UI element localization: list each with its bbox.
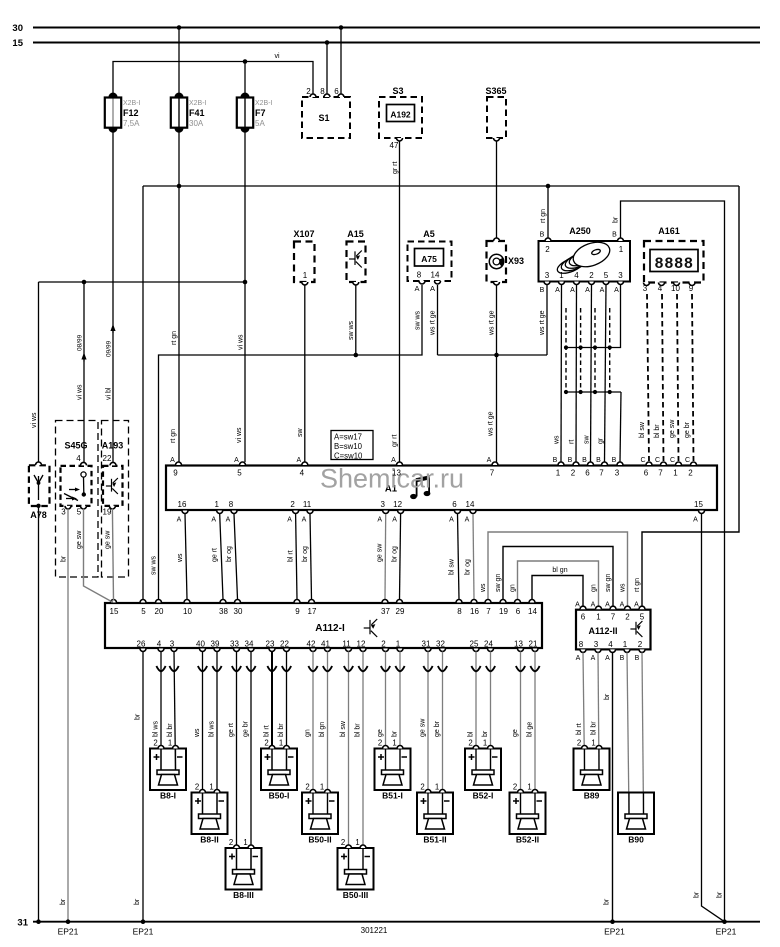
switch S365 bbox=[485, 86, 506, 141]
wire br A112-I-26 to ground EP21 bbox=[134, 652, 143, 922]
svg-text:ge sw: ge sw bbox=[420, 718, 427, 737]
enclosure dashed box S45G bbox=[56, 421, 99, 578]
svg-text:1: 1 bbox=[214, 500, 219, 509]
svg-text:S45G: S45G bbox=[64, 441, 87, 451]
svg-text:ge sw: ge sw bbox=[377, 543, 384, 562]
svg-text:B: B bbox=[553, 457, 558, 464]
svg-text:42: 42 bbox=[307, 640, 316, 649]
svg-text:1: 1 bbox=[168, 739, 172, 748]
aerial A78 bbox=[29, 462, 50, 520]
wire br A112-I-1 to B51-I 1 bbox=[392, 652, 405, 771]
svg-text:2: 2 bbox=[378, 739, 382, 748]
svg-text:A250: A250 bbox=[569, 226, 591, 236]
svg-text:6: 6 bbox=[452, 500, 457, 509]
junction F41/bus30 bbox=[177, 25, 182, 30]
svg-text:8888: 8888 bbox=[654, 255, 693, 273]
svg-text:4: 4 bbox=[157, 640, 162, 649]
svg-text:bl gn: bl gn bbox=[319, 722, 326, 737]
svg-text:16: 16 bbox=[470, 607, 479, 616]
svg-text:ge br: ge br bbox=[684, 421, 691, 438]
svg-text:15: 15 bbox=[12, 38, 23, 49]
svg-text:A: A bbox=[620, 602, 625, 609]
svg-text:sw gn: sw gn bbox=[495, 574, 502, 592]
wire gr A250 pin5 to A1 B7 bbox=[598, 285, 607, 463]
svg-text:7: 7 bbox=[599, 469, 604, 478]
wire bl sw A112-I-11 to B50-III 2 bbox=[340, 652, 353, 870]
svg-text:47: 47 bbox=[390, 141, 399, 150]
svg-text:2: 2 bbox=[381, 640, 386, 649]
svg-text:bl br: bl br bbox=[355, 723, 362, 737]
svg-text:ws: ws bbox=[194, 728, 201, 738]
wire rt gn branch down to A112-I pin5 bbox=[142, 186, 144, 599]
wire vi ws down to A78 bbox=[31, 282, 39, 464]
A112-I top pins bbox=[110, 600, 538, 617]
svg-text:S365: S365 bbox=[485, 86, 506, 96]
fuse F41 30A bbox=[171, 93, 207, 133]
svg-text:3: 3 bbox=[545, 271, 550, 280]
svg-text:ws rt ge: ws rt ge bbox=[539, 310, 546, 336]
net sw ws (A15/A5 pin8 to A112-I pin20) bbox=[151, 285, 423, 599]
wire ge br A112-I-32 to B51-II 1 bbox=[434, 652, 447, 815]
legend box A=sw17 B=sw10 C=sw10 bbox=[331, 431, 373, 461]
wire br A112-I-24 to B52-I 1 bbox=[482, 652, 495, 771]
svg-text:A: A bbox=[487, 457, 492, 464]
fuse F7 5A bbox=[237, 93, 273, 133]
svg-text:1: 1 bbox=[396, 640, 401, 649]
unit A5 with A75 (CD control) bbox=[408, 229, 452, 293]
svg-text:ws: ws bbox=[480, 583, 487, 593]
wire ge sw A1-3 to A112-I-37 bbox=[377, 514, 386, 599]
svg-text:1: 1 bbox=[303, 271, 308, 280]
svg-text:19: 19 bbox=[499, 607, 508, 616]
svg-text:1: 1 bbox=[623, 640, 628, 649]
svg-text:25: 25 bbox=[470, 640, 479, 649]
svg-text:5: 5 bbox=[604, 271, 609, 280]
svg-text:br: br bbox=[482, 730, 489, 737]
svg-text:bl sw: bl sw bbox=[639, 421, 646, 438]
svg-text:A: A bbox=[634, 602, 639, 609]
svg-text:A: A bbox=[430, 284, 435, 293]
wire vi ws S45G pin4 with 08/99 marker bbox=[77, 282, 87, 463]
svg-text:10: 10 bbox=[671, 284, 680, 293]
A1 bottom pins bbox=[177, 500, 705, 524]
svg-text:A: A bbox=[585, 287, 590, 294]
wire S365 to X93 bbox=[496, 141, 498, 238]
svg-text:br: br bbox=[135, 713, 142, 720]
svg-text:B50-III: B50-III bbox=[343, 890, 369, 900]
wire ge sw A193 pin19 to A112-I pin15 bbox=[105, 509, 114, 601]
svg-text:6: 6 bbox=[334, 87, 339, 96]
wire ws A1-16 to A112-I-10 bbox=[177, 514, 187, 599]
junction A250-br/bus31 bbox=[722, 919, 727, 924]
svg-text:1: 1 bbox=[435, 783, 439, 792]
svg-text:33: 33 bbox=[230, 640, 239, 649]
svg-text:39: 39 bbox=[211, 640, 220, 649]
svg-text:X93: X93 bbox=[508, 256, 524, 266]
svg-text:bl gn: bl gn bbox=[552, 567, 567, 574]
svg-text:B51-II: B51-II bbox=[423, 835, 446, 845]
svg-text:16: 16 bbox=[178, 500, 187, 509]
wire vi net (F12/F7 tops to S1 pin 2) bbox=[113, 53, 313, 97]
svg-text:2: 2 bbox=[625, 613, 630, 622]
antenna connector X93 bbox=[487, 238, 525, 285]
wire A78 to ground 31 bbox=[38, 506, 40, 922]
svg-text:13: 13 bbox=[514, 640, 523, 649]
svg-text:29: 29 bbox=[396, 607, 405, 616]
wire ge sw S45G pin5 to A112-I pin15 bbox=[76, 509, 113, 603]
svg-text:7: 7 bbox=[486, 607, 491, 616]
net bl gn A112-I-14 to A112-II-6 bbox=[532, 567, 583, 606]
svg-text:br: br bbox=[613, 216, 620, 223]
svg-text:br: br bbox=[604, 898, 611, 905]
wire bl rt A112-II-8 to B89 2 bbox=[576, 653, 585, 771]
switch S45G bbox=[61, 441, 92, 517]
svg-text:br: br bbox=[694, 891, 701, 898]
svg-text:ws rt ge: ws rt ge bbox=[489, 310, 496, 336]
svg-text:6: 6 bbox=[581, 613, 586, 622]
wire ge rt A112-I-33 to B8-III 2 bbox=[228, 652, 241, 870]
svg-text:B: B bbox=[582, 457, 587, 464]
svg-text:1: 1 bbox=[619, 245, 624, 254]
junction rt-gn net at A250 bbox=[546, 184, 551, 189]
svg-text:F12: F12 bbox=[123, 108, 139, 118]
wire bl ge A112-I-21 to B52-II 1 bbox=[527, 652, 540, 815]
svg-text:EP21: EP21 bbox=[133, 927, 154, 937]
svg-text:34: 34 bbox=[245, 640, 254, 649]
svg-text:X2B-I: X2B-I bbox=[189, 100, 207, 107]
svg-text:ge rt: ge rt bbox=[228, 723, 235, 737]
net ws rt ge (X93/S365 to A5 pin14, A250 pin3, A1 pin7) bbox=[430, 285, 548, 463]
wire bl gn A112-I-41 to B50-II 1 bbox=[319, 652, 332, 815]
svg-text:13: 13 bbox=[392, 469, 401, 478]
svg-text:301221: 301221 bbox=[361, 926, 388, 935]
wire rt gn A250 pin2 up to rt-gn net bbox=[540, 186, 548, 238]
screened wire bl br A161 pin4 to A1 C7 bbox=[654, 294, 664, 461]
svg-text:rt gn: rt gn bbox=[171, 331, 178, 345]
junction vi/F7 bbox=[243, 59, 248, 64]
svg-text:A: A bbox=[177, 517, 182, 524]
svg-text:22: 22 bbox=[280, 640, 289, 649]
A1 top pins bbox=[170, 457, 696, 478]
screened wire ge br A161 pin9 to A1 C2 bbox=[684, 294, 694, 461]
svg-text:09/99: 09/99 bbox=[106, 340, 113, 357]
svg-text:ws rt ge: ws rt ge bbox=[488, 411, 495, 437]
svg-text:ge sw: ge sw bbox=[76, 530, 83, 549]
svg-text:3: 3 bbox=[380, 500, 385, 509]
A112-II bottom pins bbox=[576, 640, 645, 662]
svg-text:ge sw: ge sw bbox=[105, 530, 112, 549]
svg-text:2: 2 bbox=[545, 245, 550, 254]
speaker B51-I bbox=[375, 739, 411, 801]
relay A193 bbox=[102, 441, 124, 517]
svg-text:A: A bbox=[605, 602, 610, 609]
svg-text:bl br: bl br bbox=[167, 723, 174, 737]
svg-text:B51-I: B51-I bbox=[382, 791, 403, 801]
wire S1 pin8 to bus 15 bbox=[326, 43, 328, 95]
svg-text:8: 8 bbox=[417, 271, 422, 280]
svg-text:ws: ws bbox=[620, 583, 627, 593]
bus 30 line bbox=[12, 23, 760, 34]
svg-text:3: 3 bbox=[615, 469, 620, 478]
svg-text:12: 12 bbox=[357, 640, 366, 649]
svg-text:7: 7 bbox=[658, 469, 663, 478]
svg-text:23: 23 bbox=[266, 640, 275, 649]
speaker B8-I bbox=[150, 739, 186, 801]
wire gr rt S3 pin47 to A1 pin13 bbox=[392, 141, 400, 462]
svg-text:19: 19 bbox=[103, 508, 112, 517]
wire ge A112-I-2 to B51-I 2 bbox=[377, 652, 390, 771]
svg-text:gr rt: gr rt bbox=[392, 162, 399, 175]
wire br og A1-12 to A112-I-29 bbox=[392, 514, 401, 599]
svg-text:A75: A75 bbox=[421, 254, 437, 264]
svg-text:B: B bbox=[596, 457, 601, 464]
svg-text:ws rt ge: ws rt ge bbox=[430, 310, 437, 336]
svg-text:ge: ge bbox=[377, 729, 384, 737]
svg-text:3: 3 bbox=[61, 508, 66, 517]
svg-text:A: A bbox=[234, 457, 239, 464]
svg-text:4: 4 bbox=[608, 640, 613, 649]
svg-text:30: 30 bbox=[12, 23, 23, 34]
svg-text:21: 21 bbox=[529, 640, 538, 649]
junction A78/bus31 bbox=[36, 919, 41, 924]
wire bl ws A112-I-39 to B8-II 1 bbox=[209, 652, 222, 815]
switch S1 bbox=[302, 87, 350, 138]
wire br A250 pin1 up/right/down to ground EP21 bbox=[613, 201, 725, 922]
svg-text:gn: gn bbox=[591, 584, 598, 592]
svg-text:EP21: EP21 bbox=[716, 927, 737, 937]
svg-text:11: 11 bbox=[303, 500, 312, 509]
svg-text:5: 5 bbox=[640, 613, 645, 622]
svg-text:08/99: 08/99 bbox=[77, 334, 84, 351]
svg-text:bl br: bl br bbox=[278, 723, 285, 737]
net rt gn horizontal (F41 junction to right riser) bbox=[143, 95, 739, 462]
svg-text:9: 9 bbox=[173, 469, 178, 478]
svg-text:sw: sw bbox=[584, 435, 591, 445]
net gn A112-I-6 to A112-II-1 bbox=[510, 561, 599, 606]
svg-text:B89: B89 bbox=[584, 791, 600, 801]
svg-text:bl ws: bl ws bbox=[153, 721, 160, 737]
svg-text:17: 17 bbox=[308, 607, 317, 616]
svg-text:15: 15 bbox=[694, 500, 703, 509]
svg-text:ge rt: ge rt bbox=[212, 548, 219, 562]
svg-text:X2B-I: X2B-I bbox=[255, 100, 273, 107]
svg-text:B52-II: B52-II bbox=[516, 835, 539, 845]
svg-text:sw ws: sw ws bbox=[415, 310, 422, 330]
svg-text:6: 6 bbox=[585, 469, 590, 478]
svg-text:2: 2 bbox=[306, 87, 311, 96]
speaker B52-II bbox=[510, 783, 546, 845]
junction rt-gn/F41 bbox=[177, 184, 182, 189]
svg-text:1: 1 bbox=[673, 469, 678, 478]
svg-text:F7: F7 bbox=[255, 108, 266, 118]
svg-text:A: A bbox=[576, 655, 581, 662]
svg-text:2: 2 bbox=[571, 469, 576, 478]
svg-text:B=sw10: B=sw10 bbox=[334, 442, 363, 451]
speaker B89 bbox=[574, 739, 610, 801]
svg-text:B: B bbox=[612, 457, 617, 464]
svg-text:3: 3 bbox=[170, 640, 175, 649]
screened wire bl sw A161 pin3 to A1 C6 bbox=[639, 294, 649, 461]
svg-text:24: 24 bbox=[484, 640, 493, 649]
svg-text:40: 40 bbox=[196, 640, 205, 649]
svg-text:2: 2 bbox=[577, 739, 581, 748]
svg-text:1: 1 bbox=[596, 613, 601, 622]
svg-text:B8-II: B8-II bbox=[200, 835, 218, 845]
svg-text:2: 2 bbox=[229, 838, 233, 847]
svg-text:5A: 5A bbox=[255, 119, 265, 128]
wire bl br A112-I-12 to B50-III 1 bbox=[355, 652, 368, 870]
svg-text:EP21: EP21 bbox=[604, 927, 625, 937]
svg-text:A: A bbox=[170, 457, 175, 464]
svg-text:4: 4 bbox=[658, 284, 663, 293]
svg-text:A: A bbox=[414, 284, 419, 293]
svg-text:A: A bbox=[555, 287, 560, 294]
svg-text:br: br bbox=[604, 693, 611, 700]
svg-text:A: A bbox=[302, 517, 307, 524]
svg-text:bl rt: bl rt bbox=[576, 723, 583, 735]
net sw gn A112-I-19 to A112-II-7 bbox=[495, 547, 613, 607]
svg-text:bl sw: bl sw bbox=[449, 558, 456, 575]
svg-text:vi ws: vi ws bbox=[31, 412, 38, 428]
wire A112-II-2 to B90 bbox=[642, 653, 644, 815]
svg-text:2: 2 bbox=[468, 739, 472, 748]
svg-text:br: br bbox=[60, 898, 67, 905]
wire A112-II-1 to B90 bbox=[627, 653, 629, 815]
svg-text:2: 2 bbox=[290, 500, 295, 509]
svg-text:rt: rt bbox=[569, 440, 576, 444]
svg-text:2: 2 bbox=[264, 739, 268, 748]
svg-text:1: 1 bbox=[527, 783, 531, 792]
A112-II top pins bbox=[575, 602, 645, 622]
wire bl br A112-I-22 to B50-I 1 bbox=[278, 652, 291, 771]
svg-text:ge sw: ge sw bbox=[669, 419, 676, 438]
junction A112-I-26/bus31 bbox=[141, 919, 146, 924]
svg-text:4: 4 bbox=[76, 454, 81, 463]
wire bl br A112-II-3 to B89 1 bbox=[591, 653, 600, 771]
svg-text:A: A bbox=[605, 655, 610, 662]
svg-text:A: A bbox=[693, 517, 698, 524]
svg-text:38: 38 bbox=[219, 607, 228, 616]
svg-text:2: 2 bbox=[341, 838, 345, 847]
svg-text:A15: A15 bbox=[347, 229, 364, 239]
bus 31 ground line bbox=[17, 918, 760, 929]
enclosure dashed box A193 bbox=[102, 421, 129, 578]
svg-text:B: B bbox=[612, 232, 617, 239]
svg-text:6: 6 bbox=[516, 607, 521, 616]
svg-text:1: 1 bbox=[209, 783, 213, 792]
svg-text:A: A bbox=[287, 517, 292, 524]
junction S1-6/bus30 bbox=[339, 25, 344, 30]
wire ws A112-I-40 to B8-II 2 bbox=[194, 652, 207, 815]
svg-text:14: 14 bbox=[466, 500, 475, 509]
screened wire ge sw A161 pin10 to A1 C1 bbox=[669, 294, 679, 461]
svg-text:A: A bbox=[465, 517, 470, 524]
svg-text:C: C bbox=[685, 457, 690, 464]
speaker B51-II bbox=[417, 783, 453, 845]
amplifier A112-I bbox=[105, 603, 542, 648]
wire br A112-II-4 to ground EP21 bbox=[604, 653, 613, 922]
svg-text:1: 1 bbox=[320, 783, 324, 792]
wire ge sw A112-I-31 to B51-II 2 bbox=[420, 652, 433, 815]
junction S45G-3/bus31 bbox=[66, 919, 71, 924]
svg-text:A: A bbox=[296, 457, 301, 464]
wire bl br A112-I-3 to B8-I 1 bbox=[167, 652, 179, 771]
wire bl ws A112-I-4 to B8-I 2 bbox=[153, 652, 166, 771]
svg-text:2: 2 bbox=[638, 640, 643, 649]
svg-text:A: A bbox=[449, 517, 454, 524]
svg-text:rt gn: rt gn bbox=[170, 429, 177, 443]
svg-text:9: 9 bbox=[295, 607, 300, 616]
svg-text:7: 7 bbox=[490, 469, 495, 478]
svg-text:X107: X107 bbox=[293, 229, 314, 239]
wire gn A112-I-42 to B50-II 2 bbox=[305, 652, 318, 815]
svg-text:B52-I: B52-I bbox=[473, 791, 494, 801]
svg-text:gr rt: gr rt bbox=[392, 435, 399, 448]
svg-text:7: 7 bbox=[611, 613, 616, 622]
svg-text:X2B-I: X2B-I bbox=[123, 100, 141, 107]
speaker B90 bbox=[618, 793, 654, 845]
svg-text:30: 30 bbox=[234, 607, 243, 616]
svg-text:30A: 30A bbox=[189, 119, 204, 128]
svg-text:A: A bbox=[570, 287, 575, 294]
speaker B52-I bbox=[465, 739, 501, 801]
speaker B50-I bbox=[261, 739, 297, 801]
svg-text:A5: A5 bbox=[423, 229, 435, 239]
svg-text:C: C bbox=[655, 457, 660, 464]
display A161 bbox=[643, 226, 704, 293]
svg-text:B: B bbox=[620, 655, 625, 662]
svg-text:A=sw17: A=sw17 bbox=[334, 433, 362, 442]
svg-text:B: B bbox=[568, 457, 573, 464]
svg-text:B8-I: B8-I bbox=[160, 791, 176, 801]
svg-text:sw ws: sw ws bbox=[348, 320, 355, 340]
svg-text:41: 41 bbox=[321, 640, 330, 649]
svg-text:5: 5 bbox=[77, 508, 82, 517]
net vi ws (F7 to A1 pin5, branch to A78/S45G) bbox=[39, 95, 246, 462]
svg-text:A161: A161 bbox=[658, 226, 680, 236]
svg-text:B: B bbox=[540, 232, 545, 239]
junction vi-ws/S45G pin4 bbox=[82, 280, 87, 285]
wire br og A1-8 to A112-I-30 bbox=[226, 514, 238, 599]
svg-text:A: A bbox=[591, 655, 596, 662]
svg-text:rt gn: rt gn bbox=[540, 209, 547, 223]
wire br S45G pin3 to ground EP21 bbox=[60, 509, 68, 922]
wire bl sw A1-6 to A112-I-8 bbox=[449, 514, 460, 599]
svg-text:C: C bbox=[670, 457, 675, 464]
svg-text:B50-II: B50-II bbox=[308, 835, 331, 845]
svg-text:8: 8 bbox=[457, 607, 462, 616]
wire br og A1-14 to A112-I-16 bbox=[465, 514, 475, 599]
amplifier A112-II bbox=[576, 610, 651, 650]
wire ws A250 pin1b to A1 B1 bbox=[554, 285, 562, 463]
svg-text:C: C bbox=[640, 457, 645, 464]
svg-text:1: 1 bbox=[392, 739, 396, 748]
svg-text:32: 32 bbox=[436, 640, 445, 649]
wire bl rt A112-I-23 to B50-I 2 bbox=[264, 652, 277, 771]
junction S1-8/bus15 bbox=[325, 40, 330, 45]
svg-text:br og: br og bbox=[226, 546, 233, 562]
svg-text:B8-III: B8-III bbox=[233, 890, 254, 900]
svg-text:A: A bbox=[392, 517, 397, 524]
wire br A1-15 down to ground EP21 bbox=[694, 514, 725, 922]
svg-text:bl rt: bl rt bbox=[264, 725, 271, 737]
svg-text:B: B bbox=[635, 655, 640, 662]
wire sw ws A15 down to net bbox=[348, 285, 356, 355]
wire ge rt A1-1 to A112-I-38 bbox=[212, 514, 224, 599]
sensor A15 bbox=[347, 229, 366, 285]
svg-text:A: A bbox=[377, 517, 382, 524]
svg-text:B90: B90 bbox=[628, 835, 644, 845]
